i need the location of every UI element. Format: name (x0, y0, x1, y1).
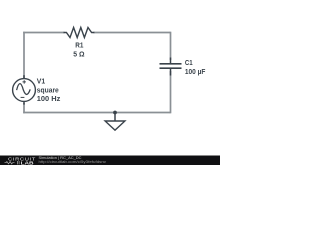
svg-text:100 µF: 100 µF (185, 67, 206, 76)
svg-text:R1: R1 (75, 40, 83, 49)
wire top right (94, 32, 171, 34)
svg-text:100 Hz: 100 Hz (37, 94, 61, 103)
logo cap symbol (18, 161, 20, 164)
logo zigzag (5, 162, 15, 164)
svg-text:square: square (37, 85, 59, 94)
junction dot (113, 111, 117, 115)
resistor R1 (64, 28, 95, 38)
svg-text:V1: V1 (37, 77, 45, 86)
svg-text:5 Ω: 5 Ω (73, 49, 84, 58)
svg-text:LAB: LAB (21, 160, 34, 165)
svg-text:http://circuitlab.com/c/5y3fef: http://circuitlab.com/c/5y3fefufdsnv (39, 160, 107, 164)
source V1 (13, 75, 36, 104)
wire top left (23, 32, 64, 34)
wire right lower (170, 71, 172, 113)
wire left lower (23, 103, 25, 113)
wire left upper (23, 32, 25, 79)
ground (105, 113, 125, 131)
capacitor C1 (160, 58, 182, 76)
wire bottom (23, 112, 170, 114)
watermark bar (0, 156, 220, 166)
wire right upper (170, 32, 172, 60)
